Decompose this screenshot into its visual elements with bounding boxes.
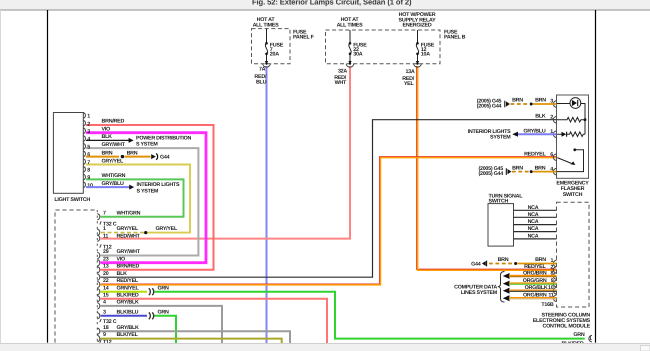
svg-text:GRY/BLK: GRY/BLK [117, 300, 139, 306]
wire GRY/BLU pin 10 arrow to INTERIOR LIGHTS SYSTEM [86, 186, 130, 188]
module pin arc brackets [553, 260, 556, 301]
wire GRY/BLK T32C pin 18 down off-page [101, 331, 291, 344]
svg-text:14: 14 [103, 285, 109, 291]
svg-text:ENERGIZED: ENERGIZED [403, 23, 432, 29]
svg-text:GRN: GRN [158, 310, 170, 316]
svg-text:GRN: GRN [573, 332, 585, 338]
connector pin 32A symbol [348, 61, 351, 64]
splice symbol )) on pin 14 wire [149, 288, 154, 295]
svg-text:WHT/GRN: WHT/GRN [117, 210, 141, 216]
svg-text:BLU: BLU [256, 80, 267, 86]
svg-text:BRN: BRN [512, 98, 523, 104]
svg-text:2: 2 [550, 114, 553, 120]
label T12 [100, 244, 101, 247]
label T32C (second) [100, 319, 101, 322]
wire NCA 5 [514, 238, 557, 240]
wire BLK/YEL T12 pin 9 down off-page [101, 339, 282, 344]
diagram page left border [47, 10, 49, 343]
svg-text:4: 4 [550, 166, 553, 172]
splice symbol )) on pin 3 wire [149, 312, 154, 319]
internal wire lamp to right bus [581, 104, 585, 135]
svg-text:ORG/BRN: ORG/BRN [523, 270, 547, 276]
internal wire contact to pin 4 [557, 150, 584, 172]
svg-text:POWER DISTRIBUTION: POWER DISTRIBUTION [136, 135, 192, 141]
svg-text:ORG/BRN: ORG/BRN [523, 293, 547, 299]
svg-text:BLK: BLK [535, 114, 546, 120]
fuse panel B dashed box [326, 30, 441, 64]
wire GRY/YEL dashed segment splice to T32C pin 1 [101, 232, 145, 234]
svg-text:7: 7 [103, 210, 106, 216]
wire VIO light switch pin 3 to T12 pin 23 [86, 133, 206, 263]
svg-text:ORG/GRN: ORG/GRN [523, 278, 547, 284]
svg-text:G44: G44 [471, 261, 481, 267]
svg-text:13A: 13A [405, 69, 414, 75]
svg-text:T16B: T16B [541, 302, 553, 308]
svg-text:7: 7 [87, 160, 90, 166]
svg-text:NCA: NCA [528, 212, 539, 218]
svg-text:BRN: BRN [512, 165, 523, 171]
svg-text:BRN: BRN [535, 165, 546, 171]
wire GRN splice at pin 3 down off-page [155, 316, 177, 343]
footer right corner box [641, 346, 650, 351]
connector T32C/T12 dashed box [55, 210, 97, 343]
svg-text:GRN: GRN [158, 286, 170, 292]
wire NCA 4 [514, 231, 557, 233]
internal wire pin 3 to lamp [557, 103, 571, 105]
wire GRY/YEL light switch pin 7 to splice dot [86, 165, 190, 233]
wire NCA 1 [514, 209, 557, 211]
wire ORG/BRN module pin 8 arrow [503, 273, 510, 279]
svg-text:ALL TIMES: ALL TIMES [337, 23, 364, 29]
svg-text:15: 15 [103, 292, 109, 298]
svg-text:BRN: BRN [535, 98, 546, 104]
svg-text:30A: 30A [353, 51, 362, 57]
svg-text:GRY/YEL: GRY/YEL [156, 226, 178, 232]
svg-text:SWITCH: SWITCH [563, 192, 583, 198]
wire GRN/YEL T12 pin 14 to splice [101, 291, 148, 293]
svg-text:1: 1 [550, 258, 553, 264]
svg-text:2: 2 [87, 121, 90, 127]
connector pin 7A symbol [265, 61, 268, 64]
svg-text:BLK/RED: BLK/RED [117, 292, 139, 298]
svg-text:4: 4 [103, 300, 106, 306]
svg-text:LIGHT SWITCH: LIGHT SWITCH [54, 197, 90, 203]
svg-text:WHT: WHT [335, 80, 347, 86]
wire RED/YEL emergency flasher pin 6 to T12 pin 22 (orange body) [101, 158, 557, 285]
svg-text:BRN/RED: BRN/RED [102, 119, 125, 125]
wire GRN splice to bottom-right connector pin 1 [155, 292, 585, 339]
wire RED/WHT from fuse 22 pin 32A to T12 pin 11 [101, 66, 351, 239]
switch contact dot [573, 148, 576, 151]
connector bracket bottom right [589, 335, 592, 341]
svg-text:SYSTEM: SYSTEM [490, 135, 511, 141]
wire ORG/BRN module pin 11 arrow [503, 295, 510, 301]
svg-text:BRN: BRN [498, 257, 509, 263]
svg-text:9: 9 [87, 175, 90, 181]
svg-text:10A: 10A [421, 51, 430, 57]
svg-text:9: 9 [103, 332, 106, 338]
svg-text:NCA: NCA [528, 205, 539, 211]
svg-text:PANEL F: PANEL F [293, 35, 315, 41]
svg-text:GRY/YEL: GRY/YEL [117, 226, 139, 232]
steering column module dashed box [557, 202, 590, 307]
footer status bar band [0, 344, 650, 351]
svg-text:BRN: BRN [535, 257, 546, 263]
fuse F12 element [416, 30, 418, 61]
wire ORG/BLK module pin 10 arrow [503, 288, 510, 294]
wire RED/YEL from fuse 12 pin 13A to steering column module pin 2 (red edge) [417, 66, 557, 269]
fuse panel F dashed box [252, 29, 291, 64]
wire GRY/BLU flasher pin 1 arrow to INTERIOR LIGHTS SYSTEM [512, 132, 518, 137]
svg-text:GRY/WHT: GRY/WHT [102, 142, 126, 148]
svg-text:22: 22 [103, 278, 109, 284]
switch blade pin 6 to contact [557, 158, 573, 165]
svg-text:3: 3 [550, 99, 553, 105]
svg-text:3: 3 [87, 129, 90, 135]
fuse F22 element [349, 30, 351, 61]
wire RED/BLU from fuse 7 pin 7A down off-page [266, 66, 268, 344]
svg-text:BLK: BLK [117, 271, 128, 277]
svg-text:BLK/YEL: BLK/YEL [117, 332, 139, 338]
wire BLK emergency flasher pin 2 to T12 pin 20 [101, 120, 557, 278]
wire NCA 2 [514, 216, 557, 218]
window left edge [0, 10, 2, 344]
svg-text:20: 20 [103, 271, 109, 277]
svg-text:23: 23 [103, 256, 109, 262]
svg-text:ALL TIMES: ALL TIMES [253, 23, 280, 29]
wire GRY/WHT light switch pin 5 to T12 pin 29 [86, 148, 198, 255]
svg-text:8: 8 [87, 168, 90, 174]
svg-text:GRY/YEL: GRY/YEL [102, 158, 124, 164]
svg-text:11: 11 [548, 293, 553, 299]
svg-text:7A: 7A [259, 67, 266, 73]
diode and resistor pin 1 row [562, 132, 567, 137]
svg-text:ORG/BLK: ORG/BLK [525, 285, 548, 291]
light switch box [53, 113, 83, 194]
svg-text:NCA: NCA [528, 226, 539, 232]
svg-text:GRY/BLU: GRY/BLU [523, 129, 545, 135]
svg-text:G44: G44 [160, 155, 170, 161]
svg-text:1: 1 [550, 129, 553, 135]
svg-text:11: 11 [103, 233, 108, 239]
svg-text:PANEL B: PANEL B [444, 35, 466, 41]
svg-text:S YSTEM: S YSTEM [137, 188, 159, 194]
wire GRY/BLK T32C pin 4 down off-page [101, 306, 223, 344]
svg-text:GRY/BLU: GRY/BLU [102, 181, 124, 187]
wire BLK/RED T12 pin 15 down off-page [101, 299, 328, 344]
wire BLK/BLU T32C pin 3 to splice [101, 315, 148, 317]
light switch pin bumps 1-10 [83, 113, 85, 188]
svg-text:CONTROL MODULE: CONTROL MODULE [543, 323, 591, 329]
svg-text:10: 10 [548, 285, 554, 291]
svg-text:3: 3 [103, 309, 106, 315]
flasher pin arc brackets [553, 101, 556, 175]
svg-text:5: 5 [87, 144, 90, 150]
svg-text:BLK/BLU: BLK/BLU [117, 309, 139, 315]
svg-text:NCA: NCA [528, 234, 539, 240]
svg-text:RED/YEL: RED/YEL [117, 278, 139, 284]
label T12 (second, cut by footer) [100, 339, 101, 342]
svg-text:18: 18 [103, 325, 109, 331]
svg-text:GRY/BLK: GRY/BLK [117, 325, 139, 331]
svg-text:(2005) G44: (2005) G44 [477, 103, 502, 109]
lamp symbol inside flasher [570, 98, 581, 109]
emergency flasher switch box [557, 95, 589, 178]
svg-text:S YSTEM: S YSTEM [136, 141, 158, 147]
wire WHT/GRN light switch pin 9 to T32C pin 7 [86, 179, 184, 216]
svg-text:29: 29 [103, 249, 109, 255]
svg-text:32A: 32A [338, 68, 347, 74]
wire RED/YEL emergency flasher pin 6 to T12 pin 22 (red edge) [101, 157, 557, 284]
connector pin arc brackets on T32C/T12 [97, 214, 99, 342]
diagram page right border [595, 10, 597, 343]
svg-text:(2005) G44: (2005) G44 [478, 171, 503, 177]
label T32C [100, 221, 101, 224]
connector pin 13A symbol [416, 61, 419, 64]
turn signal switch box [488, 204, 514, 247]
top band separator line [0, 9, 650, 11]
svg-text:BRN: BRN [102, 150, 113, 156]
resistor pin 2 row [557, 117, 586, 122]
svg-text:RED/YEL: RED/YEL [524, 152, 546, 158]
svg-text:BRN/RED: BRN/RED [117, 263, 140, 269]
top toolbar band [0, 0, 650, 10]
svg-text:WHT/GRN: WHT/GRN [102, 173, 126, 179]
svg-text:RED/WHT: RED/WHT [117, 233, 141, 239]
junction dot GRY/YEL splice [144, 231, 147, 234]
svg-text:NCA: NCA [528, 219, 539, 225]
svg-text:8: 8 [550, 270, 553, 276]
svg-text:GRN/YEL: GRN/YEL [117, 285, 140, 291]
wire RED/YEL from fuse 12 pin 13A to steering column module pin 2 (orange body) [418, 66, 557, 270]
svg-text:Fig. 52: Exterior Lamps Circui: Fig. 52: Exterior Lamps Circuit, Sedan (… [252, 0, 412, 6]
wire BRN/RED light switch pin 2 to T12 pin 13 [86, 125, 214, 270]
svg-text:4: 4 [87, 137, 90, 143]
svg-text:BRN: BRN [127, 151, 138, 157]
svg-text:20A: 20A [270, 51, 279, 57]
ground G44 arrow symbol [151, 154, 156, 159]
svg-text:9: 9 [551, 278, 554, 284]
wire NCA 3 [514, 224, 557, 226]
svg-text:VIO: VIO [102, 126, 111, 132]
brace for computer data lines [498, 272, 505, 303]
svg-text:13: 13 [103, 263, 109, 269]
svg-text:YEL: YEL [404, 81, 415, 87]
wire ORG/GRN module pin 9 arrow [503, 281, 510, 287]
svg-text:1: 1 [103, 226, 106, 232]
svg-text:INTERIOR LIGHTS: INTERIOR LIGHTS [137, 182, 181, 188]
svg-text:RED/YEL: RED/YEL [524, 264, 546, 270]
fuse F7 element [265, 29, 267, 61]
svg-text:LINES SYSTEM: LINES SYSTEM [461, 290, 498, 296]
svg-text:6: 6 [550, 152, 553, 158]
svg-text:GRY/WHT: GRY/WHT [117, 249, 141, 255]
svg-text:BLK: BLK [102, 134, 113, 140]
svg-text:1: 1 [87, 114, 90, 120]
svg-text:VIO: VIO [117, 256, 126, 262]
junction dot on bus at pin 2 row [584, 118, 587, 121]
